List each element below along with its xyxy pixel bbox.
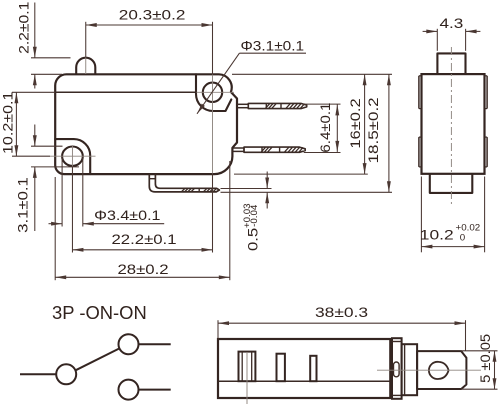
svg-text:3.1±0.1: 3.1±0.1 [16, 177, 31, 233]
svg-text:3P -ON-ON: 3P -ON-ON [52, 302, 147, 323]
svg-text:0.5: 0.5 [246, 228, 261, 251]
svg-text:Φ3.4±0.1: Φ3.4±0.1 [94, 209, 160, 223]
svg-text:10.2: 10.2 [420, 228, 454, 243]
svg-text:38±0.3: 38±0.3 [315, 306, 368, 321]
svg-text:2.2±0.1: 2.2±0.1 [17, 2, 32, 54]
svg-text:22.2±0.1: 22.2±0.1 [111, 233, 176, 248]
svg-text:16±0.2: 16±0.2 [348, 98, 363, 148]
svg-text:5 ±0.05: 5 ±0.05 [478, 334, 493, 383]
svg-text:Φ3.1±0.1: Φ3.1±0.1 [241, 39, 305, 54]
svg-text:6.4±0.1: 6.4±0.1 [319, 103, 334, 153]
svg-text:10.2±0.1: 10.2±0.1 [2, 92, 16, 154]
svg-text:28±0.2: 28±0.2 [117, 263, 168, 278]
svg-text:-0.04: -0.04 [249, 204, 260, 227]
svg-text:4.3: 4.3 [439, 16, 463, 31]
svg-text:0: 0 [460, 233, 465, 244]
svg-text:20.3±0.2: 20.3±0.2 [119, 8, 186, 23]
svg-text:18.5±0.2: 18.5±0.2 [367, 97, 382, 163]
